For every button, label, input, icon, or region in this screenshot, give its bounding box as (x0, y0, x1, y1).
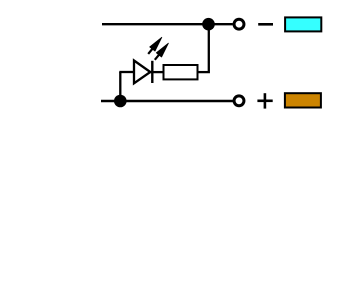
wire vertical from anode down to bottom rail (119, 72, 121, 101)
junction dot bottom (node plus rail) (114, 95, 127, 108)
terminal block cyan (minus) (285, 17, 321, 31)
resistor R1 (164, 65, 198, 79)
terminal open circle top (234, 19, 244, 29)
LED D1 cathode bar (151, 61, 153, 83)
junction dot top (node minus rail) (202, 18, 215, 31)
terminal block orange (plus) (285, 93, 321, 107)
wire LED cathode to resistor (149, 71, 163, 73)
LED D1 emission arrow 2 (155, 43, 169, 60)
wire resistor right lead (198, 71, 210, 73)
LED D1 emission arrow 1 (148, 37, 162, 54)
wire bottom rail (101, 100, 233, 102)
terminal open circle bottom (234, 96, 244, 106)
minus polarity label (258, 23, 273, 26)
wire LED anode lead (119, 71, 134, 73)
LED D1 triangle (134, 61, 150, 84)
wire top rail (102, 23, 233, 25)
wire vertical drop from top junction to resistor (208, 24, 210, 71)
plus polarity label (257, 93, 272, 108)
